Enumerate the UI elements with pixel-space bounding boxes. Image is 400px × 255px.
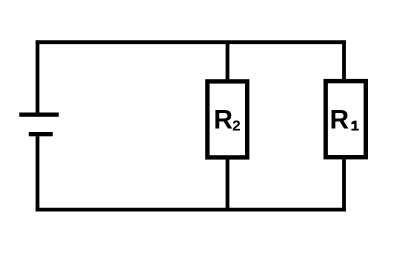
svg-text:2: 2 — [232, 117, 240, 134]
wire left upper: top-left corner down to battery positive plate — [36, 40, 40, 112]
battery B1 long plate (positive terminal) — [19, 113, 59, 117]
wire bottom: bottom-left corner across to bottom-right corner — [36, 208, 346, 212]
resistor R1 label subscript "1" (drawn with foot bar) — [351, 121, 358, 131]
wire middle lower: R2 down to bottom junction — [226, 159, 230, 209]
wire top: from battery branch across to R1 branch — [36, 40, 346, 44]
battery B1 short plate (negative terminal) — [29, 132, 53, 136]
wire left lower: battery negative plate down to bottom-left corner — [36, 136, 40, 211]
resistor R2 box — [207, 81, 247, 157]
wire right upper: top-right corner down to R1 — [342, 40, 346, 79]
wire middle upper: top junction down to R2 — [226, 42, 230, 79]
resistor R1 box — [326, 81, 366, 157]
wire right lower: R1 down to bottom-right corner — [342, 159, 346, 211]
svg-text:R: R — [330, 104, 349, 134]
svg-text:R: R — [214, 104, 233, 134]
